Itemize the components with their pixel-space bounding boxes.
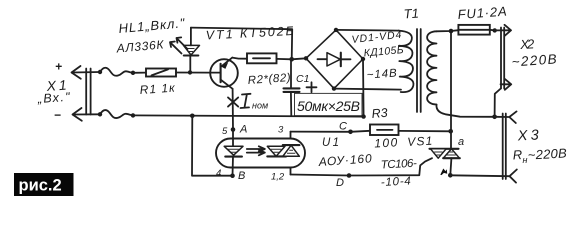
node A [231, 127, 236, 132]
svg-text:„Вх.": „Вх." [36, 90, 70, 106]
svg-text:−: − [54, 108, 61, 122]
wire VT1 collector to node A [232, 89, 234, 130]
svg-text:рис.2: рис.2 [19, 177, 62, 195]
node junction R3 to mains vertical [448, 129, 453, 134]
svg-text:В: В [238, 170, 245, 182]
label C [339, 121, 347, 133]
svg-text:X2: X2 [519, 36, 536, 52]
current mark Iном [228, 94, 268, 111]
svg-text:100: 100 [374, 135, 398, 150]
label C1 [296, 73, 309, 85]
label pin 5 [222, 126, 228, 137]
label X3 [516, 127, 539, 144]
label 50мк×25В [297, 98, 360, 114]
label R2*(82) [247, 72, 291, 87]
label R1 1к [139, 80, 176, 97]
wire bridge right corner to minus rail [362, 59, 365, 117]
capacitor C1 [284, 59, 317, 116]
label „Вх." [36, 90, 70, 106]
node junction R2/bridge/C1 [289, 57, 294, 62]
svg-text:С: С [339, 121, 347, 133]
wire T1 primary top to fuse [437, 30, 459, 31]
node junction fuse to X2 pin [493, 28, 497, 32]
label FU1·2A [457, 4, 507, 22]
label B [238, 170, 245, 182]
wire X1 top pin to R1 [72, 68, 146, 76]
label АЛ336К [115, 37, 165, 55]
node junction triac cathode corner [448, 173, 453, 178]
LED HL1 [170, 28, 200, 73]
label VT1 КТ502Б [205, 24, 294, 43]
svg-text:~14В: ~14В [366, 67, 397, 81]
resistor R1 [146, 69, 176, 77]
label a (triac anode) [458, 136, 464, 148]
svg-text:-10-4: -10-4 [381, 175, 412, 189]
svg-text:R: R [512, 147, 522, 162]
wire triac cathode to X3 bottom pin [450, 170, 517, 183]
wire junction to bridge left corner [292, 58, 306, 59]
node junction at LED/base [188, 70, 192, 74]
svg-text:R1 1к: R1 1к [139, 80, 176, 97]
wire R1 to VT1 base [176, 72, 210, 74]
wire X1 bottom pin with squiggle [73, 110, 135, 118]
svg-text:50мк×25В: 50мк×25В [297, 98, 360, 114]
resistor R3 [370, 125, 451, 136]
label pin 3 [278, 125, 284, 136]
figure label рис.2 [14, 173, 74, 196]
label X1 [45, 77, 67, 94]
svg-text:4: 4 [216, 168, 221, 179]
node D [347, 173, 352, 178]
svg-text:А: А [239, 124, 247, 136]
connector X2 [495, 25, 512, 90]
svg-text:~220В: ~220В [527, 145, 567, 162]
label к (gate mark) [440, 169, 447, 176]
label АОУ·160 [317, 151, 372, 169]
fuse FU1 [458, 25, 494, 35]
label pin 4 [216, 168, 221, 179]
svg-text:ТС106-: ТС106- [381, 158, 418, 172]
node B [230, 173, 235, 178]
transformer T1 secondary winding [399, 31, 414, 93]
wire top rail (LED anode to R2/bridge junction) [191, 28, 292, 60]
label ТС106- [381, 158, 418, 172]
svg-text:C1: C1 [296, 73, 309, 85]
label 100 [374, 135, 398, 150]
box around value 50мк×25В [295, 93, 363, 115]
resistor R2 [247, 53, 292, 63]
wire U1 pin3 to node C to R3 [291, 131, 371, 132]
triac VS1 [430, 149, 460, 176]
node junction X2/X3/primary [492, 115, 497, 120]
label X2 [519, 36, 536, 52]
svg-text:D: D [336, 177, 344, 189]
label R3 [371, 106, 388, 121]
svg-text:н: н [523, 155, 528, 165]
label HL1 „Вкл." [118, 15, 186, 36]
svg-text:ном: ном [252, 101, 268, 111]
node junction fuse/primary/mains vertical [449, 29, 454, 34]
wire T1 primary bottom to junction [436, 105, 494, 117]
svg-text:~220В: ~220В [511, 51, 557, 69]
node C [348, 130, 353, 135]
label pin 1,2 [271, 172, 285, 183]
svg-text:Т1: Т1 [403, 5, 419, 21]
wire mains vertical (fuse junction to triac) [450, 31, 452, 149]
label VD1-VD4 [351, 29, 402, 46]
label ~14В [366, 67, 397, 81]
transformer T1 core [417, 29, 421, 112]
wire X2 pin2 down to junction [495, 89, 501, 117]
label A [239, 124, 247, 136]
label + (X1 plus) [55, 60, 62, 74]
label КД105Б [363, 44, 404, 59]
wire rail to U1 pin 4 (node B) [192, 116, 233, 176]
connector X1 [72, 66, 91, 121]
svg-text:a: a [458, 136, 464, 148]
label U1 [322, 137, 339, 149]
svg-text:R3: R3 [371, 106, 388, 121]
wire bridge bottom corner to T1 secondary [334, 89, 401, 90]
label − (X1 minus) [54, 108, 61, 122]
label -10-4 [381, 175, 412, 189]
svg-text:VS1: VS1 [407, 134, 433, 149]
svg-text:+: + [55, 60, 62, 74]
label VS1 [407, 134, 433, 149]
label ~220В (X2) [511, 51, 557, 69]
optocoupler U1 [216, 130, 305, 176]
label Rн~220В [512, 145, 567, 165]
minus rail [133, 114, 366, 118]
svg-text:3: 3 [278, 125, 284, 136]
diode bridge VD1-VD4 [304, 28, 365, 91]
transformer T1 primary winding [427, 31, 436, 104]
label D [336, 177, 344, 189]
node junction rail to U1 pin4 branch [190, 114, 195, 119]
svg-text:1,2: 1,2 [271, 172, 285, 183]
connector X3 [495, 111, 517, 179]
transistor VT1 [210, 58, 247, 89]
wire bridge top corner to T1 secondary [336, 29, 399, 32]
wire U1 pin12 to node D to gate jog [291, 158, 433, 175]
label Т1 [403, 5, 419, 21]
svg-text:5: 5 [222, 126, 228, 137]
